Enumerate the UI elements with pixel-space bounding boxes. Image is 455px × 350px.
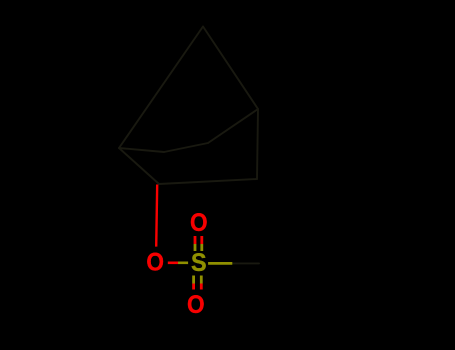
- svg-text:S: S: [191, 250, 207, 278]
- svg-text:O: O: [190, 210, 208, 237]
- svg-text:O: O: [187, 292, 205, 319]
- svg-text:O: O: [146, 250, 164, 277]
